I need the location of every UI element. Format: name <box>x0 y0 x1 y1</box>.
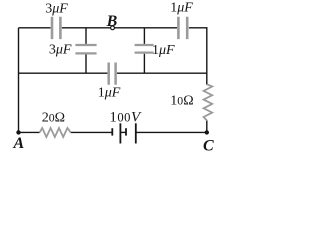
wire battery tick <box>120 131 126 133</box>
wire bottom right segment <box>136 131 207 133</box>
svg-text:3μF: 3μF <box>49 42 72 57</box>
capacitor 1uF top-right plates <box>178 17 187 39</box>
battery 100V tall plate 2 <box>135 123 137 143</box>
svg-text:A: A <box>12 135 24 152</box>
wire top middle segment <box>62 27 177 29</box>
svg-text:C: C <box>203 138 214 155</box>
svg-text:1μF: 1μF <box>98 85 121 100</box>
svg-text:100V: 100V <box>109 110 142 126</box>
capacitor 3uF top-left plates <box>52 17 60 39</box>
wire branch2 lower <box>143 54 145 73</box>
wire middle right segment <box>117 72 207 74</box>
wire right outer upper <box>206 27 208 85</box>
wire bottom left segment <box>19 131 40 133</box>
battery 100V short plate 1 <box>111 128 113 135</box>
wire middle left segment <box>19 72 108 74</box>
svg-text:20Ω: 20Ω <box>42 111 65 126</box>
wire top left segment <box>19 27 51 29</box>
capacitor 1uF row2 plates <box>135 45 154 53</box>
wire branch2 upper <box>143 28 145 44</box>
capacitor 3uF row2 plates <box>75 45 96 53</box>
battery 100V short plate 2 <box>125 128 127 135</box>
battery 100V tall plate 1 <box>119 123 121 143</box>
svg-text:10Ω: 10Ω <box>170 94 193 109</box>
svg-text:1μF: 1μF <box>170 1 193 16</box>
wire branch1 upper <box>85 28 87 44</box>
node B circle <box>111 26 115 30</box>
wire branch1 lower <box>85 55 87 74</box>
node A dot <box>16 130 20 134</box>
wire top right segment <box>189 27 207 29</box>
wire bottom middle segment <box>71 131 113 133</box>
wire left outer <box>18 28 20 133</box>
svg-text:1μF: 1μF <box>152 43 175 58</box>
svg-text:3μF: 3μF <box>45 2 68 17</box>
svg-text:B: B <box>106 13 118 30</box>
node C dot <box>205 130 209 134</box>
resistor 10 ohm zigzag <box>204 84 213 120</box>
capacitor 1uF middle plates <box>109 63 116 85</box>
wire right outer lower <box>206 120 208 132</box>
resistor 20 ohm zigzag <box>40 128 71 137</box>
